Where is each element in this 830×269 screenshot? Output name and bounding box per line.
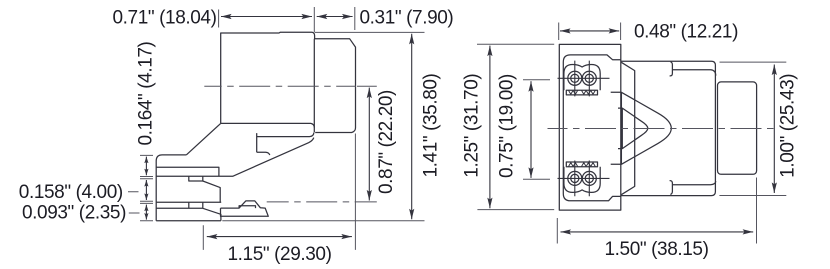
left ticks stack for 0.164/0.158/0.093 xyxy=(140,155,153,220)
dimension 0.093": arrow xyxy=(145,205,147,220)
right view: bottom J-hook xyxy=(670,181,673,195)
dimension 0.71": extension bars xyxy=(219,7,355,32)
left view: body/nose boundary xyxy=(313,39,315,133)
dimension 1.50": dimension line xyxy=(561,231,754,233)
dimension 1.25": ticks xyxy=(477,44,554,209)
right view: middle body outline xyxy=(621,61,716,195)
svg-text:1.00" (25.43): 1.00" (25.43) xyxy=(777,74,798,178)
right view: middle body inner vertical with chamfers xyxy=(621,62,634,194)
right view: centerline xyxy=(548,128,776,130)
right view: outer triangle xyxy=(611,92,672,164)
dimension 0.75": ticks xyxy=(523,80,550,180)
right view: top screw terminal peanut outline xyxy=(564,65,600,91)
leader dashes xyxy=(128,192,140,213)
left view: clamp tab verticals xyxy=(189,202,203,208)
right view: top serrated bar xyxy=(566,90,597,95)
dimension 1.41": vertical dimension line xyxy=(411,34,413,220)
left view: cord clamp plate xyxy=(221,201,269,216)
right view: terminal plate inner outline xyxy=(563,55,621,201)
left view: front diagonal face xyxy=(186,123,220,154)
dimension 0.48": extension bars xyxy=(559,23,621,41)
svg-text:0.48" (12.21): 0.48" (12.21) xyxy=(634,22,738,43)
svg-text:1.41" (35.80): 1.41" (35.80) xyxy=(420,73,441,177)
left view: notch stub xyxy=(257,152,270,155)
dimension 0.75": dimension line xyxy=(530,81,532,178)
left view: step below flange xyxy=(203,181,220,202)
right view: bottom screw left xyxy=(568,171,582,185)
dimension 1.50": extension lines xyxy=(557,178,756,244)
right view: top ledge xyxy=(672,70,715,76)
left view: flange top line xyxy=(156,167,219,176)
dimension 0.31": dimension line xyxy=(317,16,353,18)
dimension 1.00": ticks xyxy=(719,62,786,195)
left view: body outline xyxy=(221,32,356,132)
right view: top screw right xyxy=(582,71,596,85)
svg-text:0.158" (4.00): 0.158" (4.00) xyxy=(19,182,123,203)
dimension 0.71": dimension line xyxy=(221,16,312,18)
right view: terminal plate outer rectangle xyxy=(559,44,621,210)
right view: bottom serration teeth xyxy=(569,163,596,167)
left view: body bottom edge xyxy=(221,123,315,127)
left view: cable centerline xyxy=(267,201,377,203)
right view: bottom serrated bar xyxy=(566,162,597,167)
right view: top screw left xyxy=(568,71,582,85)
left view: lower block left edge with rounded corner xyxy=(156,155,186,221)
dimension 0.48": dimension line xyxy=(560,30,619,32)
left view: 0.87 extension tick at centerline xyxy=(357,85,377,87)
left view: tab on flange bottom line xyxy=(189,176,203,181)
dimension 1.41": top extension line xyxy=(315,31,425,33)
dimension 1.15": extension lines xyxy=(203,134,355,250)
dimension 0.158": arrow xyxy=(145,180,147,200)
right view: bottom ledge xyxy=(672,181,715,185)
right view: nose (plug face) xyxy=(718,82,757,174)
svg-text:1.25" (31.70): 1.25" (31.70) xyxy=(461,74,482,178)
dimension 1.25": dimension line xyxy=(489,46,491,209)
left view: lower block bottom edge xyxy=(156,220,221,222)
dimension 1.00": dimension line xyxy=(773,65,775,194)
right view: bottom screw right xyxy=(582,171,596,185)
right view: bottom screw terminal peanut outline xyxy=(564,167,600,193)
dimension 0.87": vertical dimension line xyxy=(368,88,370,201)
left view: clamp line 4 and diagonal xyxy=(156,208,221,221)
svg-text:0.71" (18.04): 0.71" (18.04) xyxy=(113,8,217,29)
right view: top serration teeth xyxy=(569,90,596,94)
right view: bottom screws crosshairs xyxy=(558,161,610,197)
left view: plug centerline xyxy=(204,85,356,87)
dimension 0.164": arrow xyxy=(145,157,147,176)
left view: clamp line 3 xyxy=(156,201,221,203)
svg-text:0.164" (4.17): 0.164" (4.17) xyxy=(135,41,156,145)
left view: clamp plate inner plateau xyxy=(239,206,255,208)
svg-text:1.15" (29.30): 1.15" (29.30) xyxy=(228,244,332,265)
right view: top screws crosshairs xyxy=(558,61,610,97)
svg-text:0.31" (7.90): 0.31" (7.90) xyxy=(360,8,454,29)
right view: top J-hook xyxy=(670,62,673,76)
svg-text:1.50" (38.15): 1.50" (38.15) xyxy=(605,239,709,260)
dimension 1.41"/1.15": bottom extension line xyxy=(222,220,424,222)
svg-text:0.093" (2.35): 0.093" (2.35) xyxy=(22,202,126,223)
right view: inner triangle xyxy=(618,108,648,149)
dimension 1.15": dimension line xyxy=(207,236,352,238)
left view: notch horizontal xyxy=(257,133,314,153)
svg-text:0.75" (19.00): 0.75" (19.00) xyxy=(496,74,517,178)
svg-text:0.87" (22.20): 0.87" (22.20) xyxy=(376,90,397,194)
left view: flange bottom line and long diagonal xyxy=(156,138,314,177)
